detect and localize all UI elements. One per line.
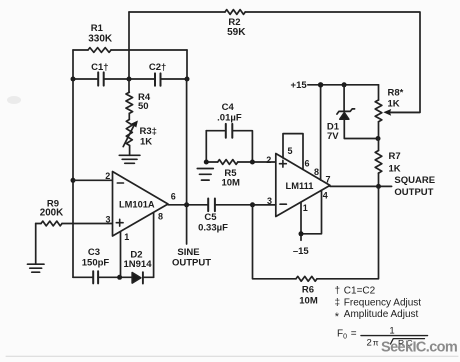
label 1K R8 xyxy=(388,98,400,109)
potentiometer R8 xyxy=(375,100,382,122)
node dot C2 right rail xyxy=(185,77,190,82)
pin number 2 U1 xyxy=(105,171,110,181)
svg-text:R6: R6 xyxy=(302,284,314,295)
svg-text:R7: R7 xyxy=(389,151,401,162)
svg-text:C4: C4 xyxy=(222,102,235,113)
wire C1 left xyxy=(73,78,98,80)
diode D2 xyxy=(132,272,143,283)
label C5 xyxy=(204,212,217,223)
label R5 xyxy=(224,168,237,179)
op-amp U1 LM101A xyxy=(113,172,169,237)
formula F0 equals xyxy=(337,329,357,341)
node dot C5 R6 xyxy=(250,202,255,207)
wire pin 4 U2 xyxy=(301,190,322,233)
label C2-dagger xyxy=(149,62,166,73)
node dot C1-C2 center xyxy=(127,77,132,82)
wire R8 top xyxy=(378,85,380,100)
svg-text:C1†: C1† xyxy=(91,62,108,73)
svg-text:6: 6 xyxy=(171,192,176,202)
balance loop pins 5 6 xyxy=(283,134,303,170)
node dot R8 D1 R7 xyxy=(376,136,381,141)
wire pin 1 U2 xyxy=(300,202,302,240)
note star amplitude adjust xyxy=(335,309,419,323)
wire R1 right xyxy=(111,49,187,51)
capacitor C5 xyxy=(208,199,215,212)
label minus15 xyxy=(293,246,310,257)
pin number 7 U2 xyxy=(325,174,330,184)
watermark SeekIC.com xyxy=(381,339,457,355)
wire D2 to pin8 riser xyxy=(143,276,154,278)
svg-text:1K: 1K xyxy=(388,98,400,109)
plus sign pin3 xyxy=(116,219,123,226)
pin number 6 U1 xyxy=(171,192,176,202)
svg-text:3: 3 xyxy=(105,215,110,225)
svg-text:150pF: 150pF xyxy=(82,257,110,268)
svg-text:10M: 10M xyxy=(299,296,318,307)
label C3 xyxy=(88,247,100,258)
label SINE xyxy=(177,247,199,258)
wire D1 anode xyxy=(344,119,378,138)
pin number 1 U1 xyxy=(124,232,129,242)
label 0.33uF xyxy=(198,222,228,233)
svg-text:C2†: C2† xyxy=(149,62,166,73)
minus sign pin3 U2 xyxy=(280,203,286,205)
ground below R3 xyxy=(119,145,140,163)
wire pin 8 U2 supply xyxy=(320,85,322,180)
wire R8 bottom xyxy=(378,122,380,139)
label SQUARE xyxy=(394,175,435,186)
svg-text:‡: ‡ xyxy=(335,297,341,308)
svg-text:2π: 2π xyxy=(367,337,379,348)
wire C1C2 node to R4 xyxy=(128,79,130,92)
wire R4 to R3 xyxy=(128,113,130,119)
svg-text:SINE: SINE xyxy=(177,247,199,258)
node dot square xyxy=(376,184,381,189)
wire square to R6 xyxy=(317,186,379,278)
svg-text:50: 50 xyxy=(138,101,149,112)
pin number 5 U2 xyxy=(288,146,293,156)
svg-text:R1: R1 xyxy=(91,23,104,34)
svg-text:4: 4 xyxy=(323,191,328,201)
label 59K xyxy=(227,27,246,38)
label 10M R6 xyxy=(299,296,318,307)
wire feedback rail right xyxy=(186,79,188,205)
ground below R5 left xyxy=(197,169,213,181)
wire R7 top xyxy=(378,139,380,151)
node dot sine feedback xyxy=(184,202,189,207)
wire R5 left xyxy=(206,161,217,163)
minus sign pin2 xyxy=(117,182,123,184)
pin number 4 U2 xyxy=(323,191,328,201)
svg-text:R8*: R8* xyxy=(388,88,404,99)
svg-text:1N914: 1N914 xyxy=(124,259,153,270)
svg-text:C3: C3 xyxy=(88,247,100,258)
ground bottom left xyxy=(28,264,45,272)
svg-text:SeekIC.com: SeekIC.com xyxy=(381,339,457,355)
capacitor C1 xyxy=(98,72,104,85)
wire R5 right to pin2 U2 xyxy=(238,161,276,163)
wire R1 left xyxy=(73,49,88,51)
svg-text:1: 1 xyxy=(303,203,308,213)
node dot C4 R5 gnd xyxy=(204,160,209,165)
wire plus15 rail xyxy=(308,84,379,86)
wire C1 to node xyxy=(104,78,129,80)
label 1K R3 xyxy=(140,137,152,148)
note dagger C1=C2 xyxy=(335,285,376,296)
pin number 8 U2 xyxy=(314,167,319,177)
svg-text:2: 2 xyxy=(266,155,271,165)
label plus15 xyxy=(291,80,308,91)
label .01uF xyxy=(217,113,242,124)
potentiometer R3 xyxy=(126,120,132,146)
svg-text:†: † xyxy=(335,285,341,296)
node dot R5 pin2 xyxy=(250,160,255,165)
wire pin 2 LM101A xyxy=(73,179,113,181)
label R9 xyxy=(47,198,59,209)
svg-text:330K: 330K xyxy=(88,34,113,45)
svg-text:R3‡: R3‡ xyxy=(140,126,157,137)
node dot pin2 rail xyxy=(71,178,76,183)
svg-text:Frequency Adjust: Frequency Adjust xyxy=(344,297,421,308)
svg-text:1: 1 xyxy=(389,326,394,337)
capacitor C2 xyxy=(155,73,161,85)
pin number 3 U2 xyxy=(267,196,272,206)
label C4 xyxy=(222,102,235,113)
resistor R6 xyxy=(296,276,317,281)
wire square output xyxy=(330,185,392,187)
pin number 6 U2 xyxy=(305,159,310,169)
label R2 xyxy=(228,17,240,28)
svg-text:LM101A: LM101A xyxy=(119,199,155,209)
svg-text:OUTPUT: OUTPUT xyxy=(172,258,211,269)
label LM111 xyxy=(286,181,314,191)
svg-text:6: 6 xyxy=(305,159,310,169)
svg-text:SQUARE: SQUARE xyxy=(394,175,435,186)
label R8-star xyxy=(388,88,404,99)
svg-text:.01µF: .01µF xyxy=(217,113,242,124)
wire C4 top left xyxy=(206,130,224,132)
note ddagger frequency adjust xyxy=(335,297,422,308)
svg-text:200K: 200K xyxy=(40,207,63,218)
svg-text:8: 8 xyxy=(158,211,163,221)
svg-text:LM111: LM111 xyxy=(286,181,314,191)
svg-text:59K: 59K xyxy=(227,27,246,38)
capacitor C4 xyxy=(226,124,233,138)
svg-text:OUTPUT: OUTPUT xyxy=(394,187,433,198)
comparator U2 LM111 xyxy=(276,154,330,217)
resistor R7 xyxy=(375,151,382,174)
wire pin 8 U1 riser xyxy=(153,213,155,278)
label D1 xyxy=(327,121,340,132)
node dot pins 1 4 xyxy=(299,231,304,236)
label R7 xyxy=(389,151,401,162)
resistor R5 xyxy=(218,160,238,165)
svg-text:Amplitude Adjust: Amplitude Adjust xyxy=(344,309,419,320)
svg-text:7: 7 xyxy=(325,174,330,184)
svg-text:7V: 7V xyxy=(327,131,339,142)
wire U1 out to C5 xyxy=(168,204,208,206)
wire left rail xyxy=(72,79,74,277)
formula numerator 1 xyxy=(389,326,394,337)
svg-text:0.33µF: 0.33µF xyxy=(198,222,228,233)
label LM101A xyxy=(119,199,155,209)
zener D1 xyxy=(337,109,355,119)
wire R2 to R8 wiper drop xyxy=(245,12,420,112)
wire C2 right xyxy=(161,78,188,80)
wire pin3 U2 xyxy=(253,204,276,206)
svg-text:+15: +15 xyxy=(291,80,308,91)
label OUTPUT square xyxy=(394,187,433,198)
pin number 1 U2 xyxy=(303,203,308,213)
svg-text:C1=C2: C1=C2 xyxy=(344,285,376,296)
svg-text:1K: 1K xyxy=(389,164,401,175)
label R3-ddagger xyxy=(140,126,157,137)
formula fraction bar xyxy=(361,335,428,337)
wire C4 left vertical xyxy=(205,131,207,162)
resistor R4 xyxy=(126,92,133,113)
wire pin 1 U1 drop xyxy=(120,232,122,278)
scan smudge xyxy=(7,96,21,104)
label R1 xyxy=(91,23,104,34)
resistor R1 xyxy=(88,48,111,53)
wire node to C2 xyxy=(129,78,155,80)
wire C3 to node xyxy=(98,276,132,278)
resistor R2 xyxy=(225,10,245,15)
pin number 2 U2 xyxy=(266,155,271,165)
wire center top to C1C2 node xyxy=(128,12,130,79)
plus sign pin2 U2 xyxy=(280,160,287,167)
wire R6 to C5 node xyxy=(253,205,297,279)
svg-text:2: 2 xyxy=(105,171,110,181)
svg-text:–15: –15 xyxy=(293,246,310,257)
formula radical RC xyxy=(391,338,425,348)
node dot C1 left rail xyxy=(71,77,76,82)
svg-text:1K: 1K xyxy=(140,137,152,148)
pin number 3 U1 xyxy=(105,215,110,225)
wire R9 to pin 3 xyxy=(36,223,41,225)
wire left branch R1 to C1 xyxy=(72,50,74,79)
svg-text:8: 8 xyxy=(314,167,319,177)
wire R9 right to pin3 xyxy=(62,223,113,225)
svg-text:*: * xyxy=(335,311,340,323)
wire C4 top right xyxy=(232,131,252,162)
svg-text:1: 1 xyxy=(124,232,129,242)
label 10M R5 xyxy=(221,177,240,188)
label 200K xyxy=(40,207,63,218)
wire R9 down to ground xyxy=(35,224,37,264)
arrow R3 wiper xyxy=(123,121,138,147)
arrow R8 wiper xyxy=(383,109,420,116)
wire C5 to pin3 U2 xyxy=(215,204,276,206)
node dot C3 D2 pin1 xyxy=(117,275,122,280)
label R4 xyxy=(138,92,151,103)
label OUTPUT sine xyxy=(172,258,211,269)
label 7V xyxy=(327,131,339,142)
svg-text:5: 5 xyxy=(288,146,293,156)
svg-text:F0 =: F0 = xyxy=(337,329,357,341)
resistor R9 xyxy=(41,221,62,226)
label C1-dagger xyxy=(91,62,108,73)
node dot D1 top xyxy=(342,82,347,87)
svg-text:10M: 10M xyxy=(221,177,240,188)
bottom scan edge xyxy=(6,355,458,357)
wire C3 left xyxy=(73,276,93,278)
node dot pin8 supply xyxy=(318,82,323,87)
wire D1 cathode xyxy=(343,85,345,112)
formula denominator 2pi xyxy=(367,337,379,348)
pin number 8 U1 xyxy=(158,211,163,221)
label 330K xyxy=(88,34,113,45)
label R6 xyxy=(302,284,314,295)
label D2 xyxy=(130,249,142,260)
wire R7 bottom xyxy=(378,173,380,186)
wire top net from C1-C2 node to R2 xyxy=(129,11,225,13)
label 150pF xyxy=(82,257,110,268)
capacitor C3 xyxy=(93,271,98,283)
wire sine stub xyxy=(186,205,188,244)
label 1K R7 xyxy=(389,164,401,175)
wire right branch R1 to C2 xyxy=(186,50,188,79)
label 1N914 xyxy=(124,259,153,270)
label 50 xyxy=(138,101,149,112)
